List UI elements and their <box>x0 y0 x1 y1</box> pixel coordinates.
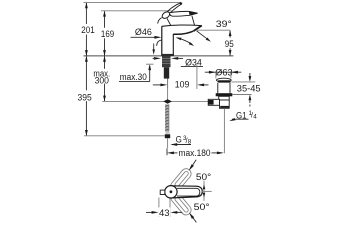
svg-text:50°: 50° <box>194 202 210 213</box>
svg-text:Ø46: Ø46 <box>135 27 152 38</box>
svg-text:4: 4 <box>253 113 257 120</box>
svg-text:max.180: max.180 <box>179 148 211 159</box>
svg-text:109: 109 <box>175 80 190 91</box>
svg-text:G1: G1 <box>236 110 247 121</box>
svg-text:43: 43 <box>159 208 170 219</box>
svg-text:300: 300 <box>95 76 109 87</box>
svg-text:Ø63: Ø63 <box>215 67 232 78</box>
svg-text:39°: 39° <box>216 19 232 30</box>
svg-text:35-45: 35-45 <box>237 84 261 95</box>
svg-text:395: 395 <box>78 93 92 104</box>
svg-text:201: 201 <box>81 25 94 36</box>
svg-text:95: 95 <box>225 39 234 50</box>
svg-text:169: 169 <box>101 29 114 40</box>
